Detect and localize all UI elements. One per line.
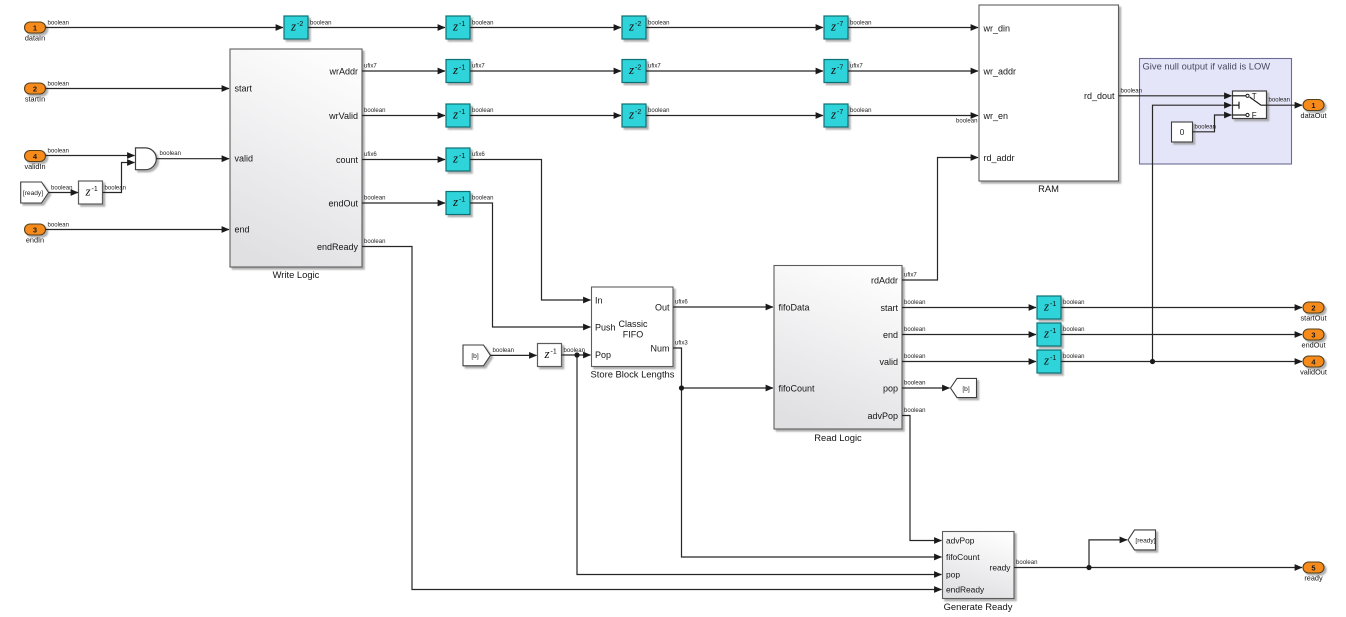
- delay Z1 (z^-2) dataIn chain: [284, 16, 308, 39]
- svg-text:In: In: [595, 295, 603, 305]
- svg-text:[b]: [b]: [962, 386, 969, 393]
- svg-text:boolean: boolean: [160, 151, 182, 157]
- wire Z7 to RAM wr_addr: [848, 70, 978, 72]
- svg-text:z: z: [830, 62, 836, 77]
- svg-text:ufix6: ufix6: [675, 299, 688, 305]
- svg-text:0: 0: [1180, 128, 1185, 137]
- svg-text:z: z: [452, 107, 458, 122]
- svg-text:-1: -1: [551, 348, 557, 355]
- delay Z6 (z^-2) wrAddr chain: [622, 60, 646, 83]
- svg-text:wr_en: wr_en: [983, 111, 1009, 121]
- svg-text:Write Logic: Write Logic: [273, 269, 320, 280]
- svg-text:-1: -1: [459, 21, 465, 28]
- delay Z13 (z^-1) ready feedback: [79, 181, 103, 204]
- wire AND gate to Write Logic valid: [156, 158, 229, 160]
- svg-text:boolean: boolean: [364, 108, 386, 114]
- from tag [ready]: [21, 182, 49, 203]
- wire endIn to Write Logic end: [46, 229, 230, 231]
- subsystem Write Logic: [230, 49, 362, 280]
- svg-text:wrAddr: wrAddr: [328, 66, 358, 76]
- svg-text:Pop: Pop: [595, 350, 611, 360]
- svg-text:boolean: boolean: [1269, 98, 1291, 104]
- delay Z9 (z^-2) wrValid chain: [622, 104, 646, 127]
- svg-text:ready: ready: [1304, 573, 1323, 582]
- svg-text:boolean: boolean: [904, 408, 926, 414]
- svg-text:endReady: endReady: [317, 242, 359, 252]
- svg-text:boolean: boolean: [904, 354, 926, 360]
- wire RAM rd_dout to switch T: [1119, 95, 1232, 97]
- svg-text:boolean: boolean: [48, 148, 70, 154]
- svg-text:advPop: advPop: [867, 411, 898, 421]
- svg-text:-7: -7: [837, 21, 843, 28]
- svg-text:ufix7: ufix7: [364, 63, 377, 69]
- svg-text:endIn: endIn: [26, 235, 44, 244]
- svg-text:end: end: [883, 330, 898, 340]
- svg-text:boolean: boolean: [956, 119, 978, 125]
- junction pop branch: [574, 352, 579, 357]
- svg-text:boolean: boolean: [904, 300, 926, 306]
- svg-text:-7: -7: [837, 64, 843, 71]
- wire switch to dataOut: [1267, 104, 1303, 106]
- delay Z3 (z^-2) dataIn chain: [622, 16, 646, 39]
- subsystem Generate Ready: [943, 532, 1015, 613]
- wire from-b to Z14: [491, 354, 537, 356]
- svg-text:boolean: boolean: [364, 239, 386, 245]
- svg-text:ready: ready: [990, 563, 1012, 573]
- wire valid branch to switch control: [1153, 105, 1232, 361]
- wire constant to switch F: [1193, 115, 1232, 132]
- svg-text:Out: Out: [655, 302, 670, 312]
- svg-text:boolean: boolean: [472, 108, 494, 114]
- svg-text:boolean: boolean: [472, 195, 494, 201]
- wire Z16 to endOut: [1061, 334, 1302, 336]
- svg-text:z: z: [452, 62, 458, 77]
- svg-text:validIn: validIn: [24, 162, 45, 171]
- wire Read Logic start to Z15: [902, 307, 1036, 309]
- svg-text:fifoCount: fifoCount: [946, 552, 980, 562]
- svg-text:z: z: [290, 19, 296, 34]
- wire from-ready to Z13: [49, 192, 78, 194]
- svg-text:3: 3: [33, 225, 37, 234]
- wire validIn to AND gate: [46, 155, 135, 157]
- junction ready branch: [1086, 565, 1091, 570]
- svg-text:-1: -1: [459, 109, 465, 116]
- svg-text:FIFO: FIFO: [623, 329, 644, 339]
- input port 3 endIn: [25, 224, 46, 244]
- input port 4 validOut: [1300, 356, 1327, 376]
- wire Z5 to Z6: [470, 70, 621, 72]
- svg-text:boolean: boolean: [1063, 354, 1085, 360]
- input port 3 endOut: [1302, 329, 1326, 349]
- svg-text:Num: Num: [650, 343, 669, 353]
- svg-text:boolean: boolean: [51, 185, 73, 191]
- svg-text:rd_addr: rd_addr: [984, 153, 1015, 163]
- wire FIFO Out to Read Logic fifoData: [673, 306, 773, 308]
- junction fifoCount branch: [679, 385, 684, 390]
- svg-text:-1: -1: [459, 196, 465, 203]
- wire ready branch to goto-ready: [1089, 540, 1127, 568]
- svg-text:validOut: validOut: [1300, 367, 1327, 376]
- svg-text:Push: Push: [595, 322, 616, 332]
- svg-text:ufix7: ufix7: [648, 63, 661, 69]
- svg-text:boolean: boolean: [1121, 88, 1143, 94]
- svg-text:boolean: boolean: [48, 20, 70, 26]
- wire Z14 to FIFO Pop: [562, 354, 591, 356]
- svg-text:1: 1: [33, 23, 37, 32]
- svg-text:F: F: [1252, 111, 1257, 120]
- svg-text:fifoData: fifoData: [779, 302, 810, 312]
- svg-text:count: count: [336, 155, 359, 165]
- svg-text:ufix7: ufix7: [472, 63, 485, 69]
- wire Z17 to validOut: [1061, 361, 1302, 363]
- svg-text:1: 1: [1311, 101, 1315, 110]
- svg-text:z: z: [84, 184, 90, 199]
- delay Z17 (z^-1) valid out: [1037, 350, 1061, 373]
- wire Generate Ready ready to port ready: [1014, 567, 1302, 569]
- svg-text:start: start: [880, 303, 898, 313]
- svg-text:Give null output if valid is L: Give null output if valid is LOW: [1143, 61, 1271, 72]
- wire Z15 to startOut: [1061, 307, 1302, 309]
- svg-text:wrValid: wrValid: [328, 111, 358, 121]
- svg-text:Generate Ready: Generate Ready: [944, 601, 1013, 612]
- annotation area: Give null output if valid is LOW: [1140, 59, 1292, 165]
- svg-text:boolean: boolean: [472, 20, 494, 26]
- wire Z2 to Z3: [470, 27, 621, 29]
- delay Z7 (z^-7) wrAddr chain: [824, 60, 848, 83]
- wire Z13 to AND gate: [103, 163, 135, 193]
- wire dataIn to Z1: [46, 27, 284, 29]
- svg-text:z: z: [628, 19, 634, 34]
- svg-text:[ready]: [ready]: [23, 190, 43, 197]
- svg-text:boolean: boolean: [850, 108, 872, 114]
- svg-text:startIn: startIn: [25, 94, 45, 103]
- delay Z15 (z^-1) start out: [1037, 296, 1061, 319]
- goto tag [ready]: [1128, 530, 1156, 550]
- svg-text:ufix7: ufix7: [850, 63, 863, 69]
- svg-text:pop: pop: [946, 570, 960, 580]
- wire Write Logic wrValid to Z8: [362, 115, 445, 117]
- svg-text:endOut: endOut: [1302, 340, 1326, 349]
- svg-text:z: z: [628, 107, 634, 122]
- wire Read Logic advPop to Generate Ready advPop: [902, 416, 942, 541]
- svg-text:-1: -1: [1050, 301, 1056, 308]
- svg-text:boolean: boolean: [493, 348, 515, 354]
- input port 1 dataIn: [25, 22, 46, 42]
- constant block 0: [1172, 122, 1193, 142]
- svg-text:-1: -1: [1050, 328, 1056, 335]
- delay Z14 (z^-1) pop feedback: [538, 344, 562, 367]
- wire Z6 to Z7: [646, 70, 823, 72]
- svg-text:5: 5: [1311, 563, 1315, 572]
- input port 5 ready: [1303, 562, 1324, 582]
- wire startIn to Write Logic start: [46, 88, 230, 90]
- svg-text:z: z: [452, 151, 458, 166]
- svg-text:z: z: [1043, 326, 1049, 341]
- delay Z5 (z^-1) wrAddr chain: [446, 60, 470, 83]
- svg-text:endOut: endOut: [328, 198, 358, 208]
- svg-text:valid: valid: [879, 357, 898, 367]
- svg-text:wr_din: wr_din: [983, 23, 1011, 33]
- svg-text:fifoCount: fifoCount: [779, 383, 816, 393]
- svg-text:z: z: [543, 346, 549, 361]
- delay Z12 (z^-1) endOut: [446, 192, 470, 215]
- svg-text:-1: -1: [459, 64, 465, 71]
- svg-text:boolean: boolean: [904, 380, 926, 386]
- wire Z9 to Z10: [646, 115, 823, 117]
- svg-text:boolean: boolean: [564, 348, 586, 354]
- svg-text:dataIn: dataIn: [25, 33, 45, 42]
- wire Write Logic endOut to Z12: [362, 202, 445, 204]
- svg-text:z: z: [1043, 353, 1049, 368]
- svg-text:start: start: [235, 84, 253, 94]
- svg-text:-2: -2: [635, 64, 641, 71]
- svg-text:Classic: Classic: [618, 319, 648, 329]
- svg-text:-1: -1: [1050, 355, 1056, 362]
- from tag [b]: [463, 345, 491, 366]
- wire Z8 to Z9: [470, 115, 621, 117]
- svg-text:-1: -1: [459, 153, 465, 160]
- svg-text:ufix7: ufix7: [904, 272, 917, 278]
- delay Z4 (z^-7) dataIn chain: [824, 16, 848, 39]
- svg-text:boolean: boolean: [1063, 300, 1085, 306]
- svg-text:wr_addr: wr_addr: [983, 66, 1017, 76]
- svg-text:startOut: startOut: [1301, 313, 1327, 322]
- wire Z1 to Z2: [308, 27, 445, 29]
- wire Write Logic count to Z11: [362, 159, 445, 161]
- wire Read Logic valid to Z17: [902, 361, 1036, 363]
- svg-text:-7: -7: [837, 109, 843, 116]
- logical operator AND gate: [136, 148, 157, 170]
- svg-text:boolean: boolean: [850, 20, 872, 26]
- svg-text:[b]: [b]: [471, 353, 478, 360]
- wire Z3 to Z4: [646, 27, 823, 29]
- svg-text:2: 2: [1311, 303, 1315, 312]
- input port 2 startIn: [25, 83, 46, 103]
- svg-text:z: z: [830, 107, 836, 122]
- input port 2 startOut: [1301, 302, 1327, 322]
- input port 4 validIn: [24, 151, 45, 171]
- svg-text:advPop: advPop: [946, 536, 975, 546]
- svg-text:dataOut: dataOut: [1301, 111, 1327, 120]
- svg-text:z: z: [830, 19, 836, 34]
- svg-text:boolean: boolean: [648, 108, 670, 114]
- wire Read Logic end to Z16: [902, 334, 1036, 336]
- svg-text:boolean: boolean: [364, 195, 386, 201]
- svg-text:2: 2: [33, 84, 37, 93]
- svg-text:boolean: boolean: [48, 222, 70, 228]
- wire pop branch to Generate Ready pop: [577, 355, 942, 575]
- svg-text:-2: -2: [635, 109, 641, 116]
- svg-text:rd_dout: rd_dout: [1084, 91, 1115, 101]
- subsystem Read Logic: [774, 266, 902, 444]
- svg-text:pop: pop: [883, 383, 898, 393]
- svg-text:boolean: boolean: [1016, 560, 1038, 566]
- svg-text:RAM: RAM: [1038, 183, 1059, 194]
- wire Write Logic wrAddr to Z5: [362, 70, 445, 72]
- input port 1 dataOut: [1301, 100, 1327, 120]
- svg-text:boolean: boolean: [310, 20, 332, 26]
- wire Z12 to FIFO Push: [470, 203, 591, 327]
- wire Z11 to FIFO In: [470, 160, 591, 301]
- delay Z11 (z^-1) count: [446, 148, 470, 171]
- switch block: [1233, 91, 1267, 120]
- svg-text:ufix3: ufix3: [675, 340, 688, 346]
- svg-text:Store Block Lengths: Store Block Lengths: [591, 369, 675, 380]
- svg-text:z: z: [628, 62, 634, 77]
- wire Write Logic endReady to Generate Ready endReady: [362, 247, 942, 590]
- svg-text:-2: -2: [635, 21, 641, 28]
- svg-text:boolean: boolean: [1195, 124, 1217, 130]
- subsystem Store Block Lengths (Classic FIFO): [591, 287, 675, 380]
- delay Z10 (z^-7) wrValid chain: [824, 104, 848, 127]
- svg-text:3: 3: [1311, 330, 1315, 339]
- svg-text:-1: -1: [92, 186, 98, 193]
- block RAM: [979, 5, 1119, 194]
- svg-text:Read Logic: Read Logic: [814, 432, 862, 443]
- wire fifoCount branch to Generate Ready fifoCount: [682, 388, 942, 557]
- wire Z10 to RAM wr_en: [848, 115, 978, 117]
- svg-text:z: z: [1043, 299, 1049, 314]
- delay Z2 (z^-1) dataIn chain: [446, 16, 470, 39]
- svg-text:endReady: endReady: [946, 585, 985, 595]
- delay Z8 (z^-1) wrValid chain: [446, 104, 470, 127]
- svg-text:boolean: boolean: [48, 81, 70, 87]
- svg-text:end: end: [235, 225, 250, 235]
- svg-text:-2: -2: [297, 21, 303, 28]
- junction valid branch: [1150, 359, 1155, 364]
- svg-text:boolean: boolean: [904, 327, 926, 333]
- wire Read Logic rdAddr to RAM rd_addr: [902, 158, 978, 281]
- wire Z4 to RAM wr_din: [848, 27, 978, 29]
- goto tag [b]: [951, 378, 977, 397]
- wire Read Logic pop to goto-b: [902, 387, 950, 389]
- wire FIFO Num to Read Logic fifoCount: [673, 348, 773, 388]
- svg-text:ufix6: ufix6: [472, 152, 485, 158]
- svg-text:z: z: [452, 19, 458, 34]
- svg-text:boolean: boolean: [105, 185, 127, 191]
- svg-text:rdAddr: rdAddr: [871, 275, 898, 285]
- svg-text:z: z: [452, 194, 458, 209]
- delay Z16 (z^-1) end out: [1037, 323, 1061, 346]
- svg-text:ufix6: ufix6: [364, 152, 377, 158]
- svg-text:boolean: boolean: [1063, 327, 1085, 333]
- svg-text:[ready]: [ready]: [1135, 537, 1155, 544]
- svg-text:boolean: boolean: [648, 20, 670, 26]
- svg-text:valid: valid: [235, 154, 254, 164]
